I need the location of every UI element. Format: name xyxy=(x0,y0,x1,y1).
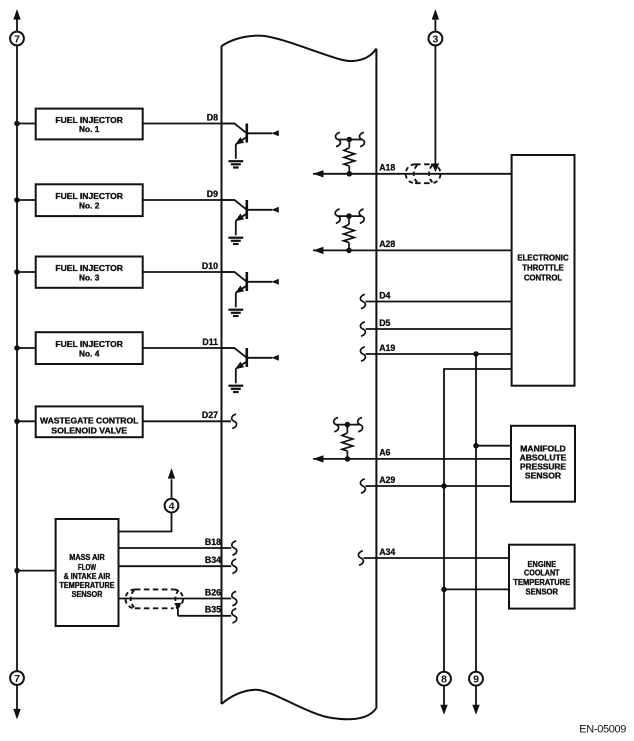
svg-text:A28: A28 xyxy=(379,239,395,249)
svg-text:D9: D9 xyxy=(207,189,218,199)
svg-text:WASTEGATE CONTROL: WASTEGATE CONTROL xyxy=(40,416,138,426)
svg-text:D8: D8 xyxy=(207,112,218,122)
svg-text:4: 4 xyxy=(169,500,175,512)
svg-text:COOLANT: COOLANT xyxy=(524,569,560,578)
svg-text:ENGINE: ENGINE xyxy=(528,560,557,569)
svg-text:No. 2: No. 2 xyxy=(79,200,100,210)
svg-text:A34: A34 xyxy=(379,547,395,557)
svg-text:A6: A6 xyxy=(379,448,390,458)
svg-text:No. 1: No. 1 xyxy=(79,124,100,134)
svg-text:9: 9 xyxy=(473,673,479,685)
svg-text:7: 7 xyxy=(14,33,20,45)
svg-text:B34: B34 xyxy=(205,555,221,565)
svg-text:B35: B35 xyxy=(205,605,221,615)
svg-text:8: 8 xyxy=(441,673,447,685)
svg-text:TEMPERATURE: TEMPERATURE xyxy=(513,578,570,587)
svg-text:TEMPERATURE: TEMPERATURE xyxy=(59,581,114,590)
svg-text:SENSOR: SENSOR xyxy=(525,472,561,481)
svg-text:A29: A29 xyxy=(379,475,395,485)
svg-text:THROTTLE: THROTTLE xyxy=(522,263,564,272)
svg-text:EN-05009: EN-05009 xyxy=(579,723,626,735)
svg-text:MANIFOLD: MANIFOLD xyxy=(520,445,566,454)
svg-text:No. 4: No. 4 xyxy=(79,348,100,358)
svg-text:CONTROL: CONTROL xyxy=(524,273,562,282)
svg-text:7: 7 xyxy=(14,673,20,685)
svg-text:ABSOLUTE: ABSOLUTE xyxy=(520,454,567,463)
svg-text:SOLENOID VALVE: SOLENOID VALVE xyxy=(51,425,127,435)
svg-text:D27: D27 xyxy=(202,410,218,420)
svg-text:D5: D5 xyxy=(379,318,390,328)
svg-text:B26: B26 xyxy=(205,587,221,597)
svg-text:ELECTRONIC: ELECTRONIC xyxy=(517,254,569,263)
svg-text:FLOW: FLOW xyxy=(78,563,96,572)
svg-text:SENSOR: SENSOR xyxy=(526,587,559,596)
svg-text:SENSOR: SENSOR xyxy=(72,590,103,599)
svg-text:3: 3 xyxy=(432,33,438,45)
svg-text:A19: A19 xyxy=(379,343,395,353)
svg-text:D10: D10 xyxy=(202,261,218,271)
svg-text:No. 3: No. 3 xyxy=(79,272,100,282)
svg-text:D4: D4 xyxy=(379,290,390,300)
svg-text:MASS AIR: MASS AIR xyxy=(69,553,105,562)
svg-text:PRESSURE: PRESSURE xyxy=(520,463,566,472)
svg-text:D11: D11 xyxy=(202,337,218,347)
svg-text:& INTAKE AIR: & INTAKE AIR xyxy=(64,572,111,581)
svg-text:B18: B18 xyxy=(205,537,221,547)
svg-text:A18: A18 xyxy=(379,163,395,173)
